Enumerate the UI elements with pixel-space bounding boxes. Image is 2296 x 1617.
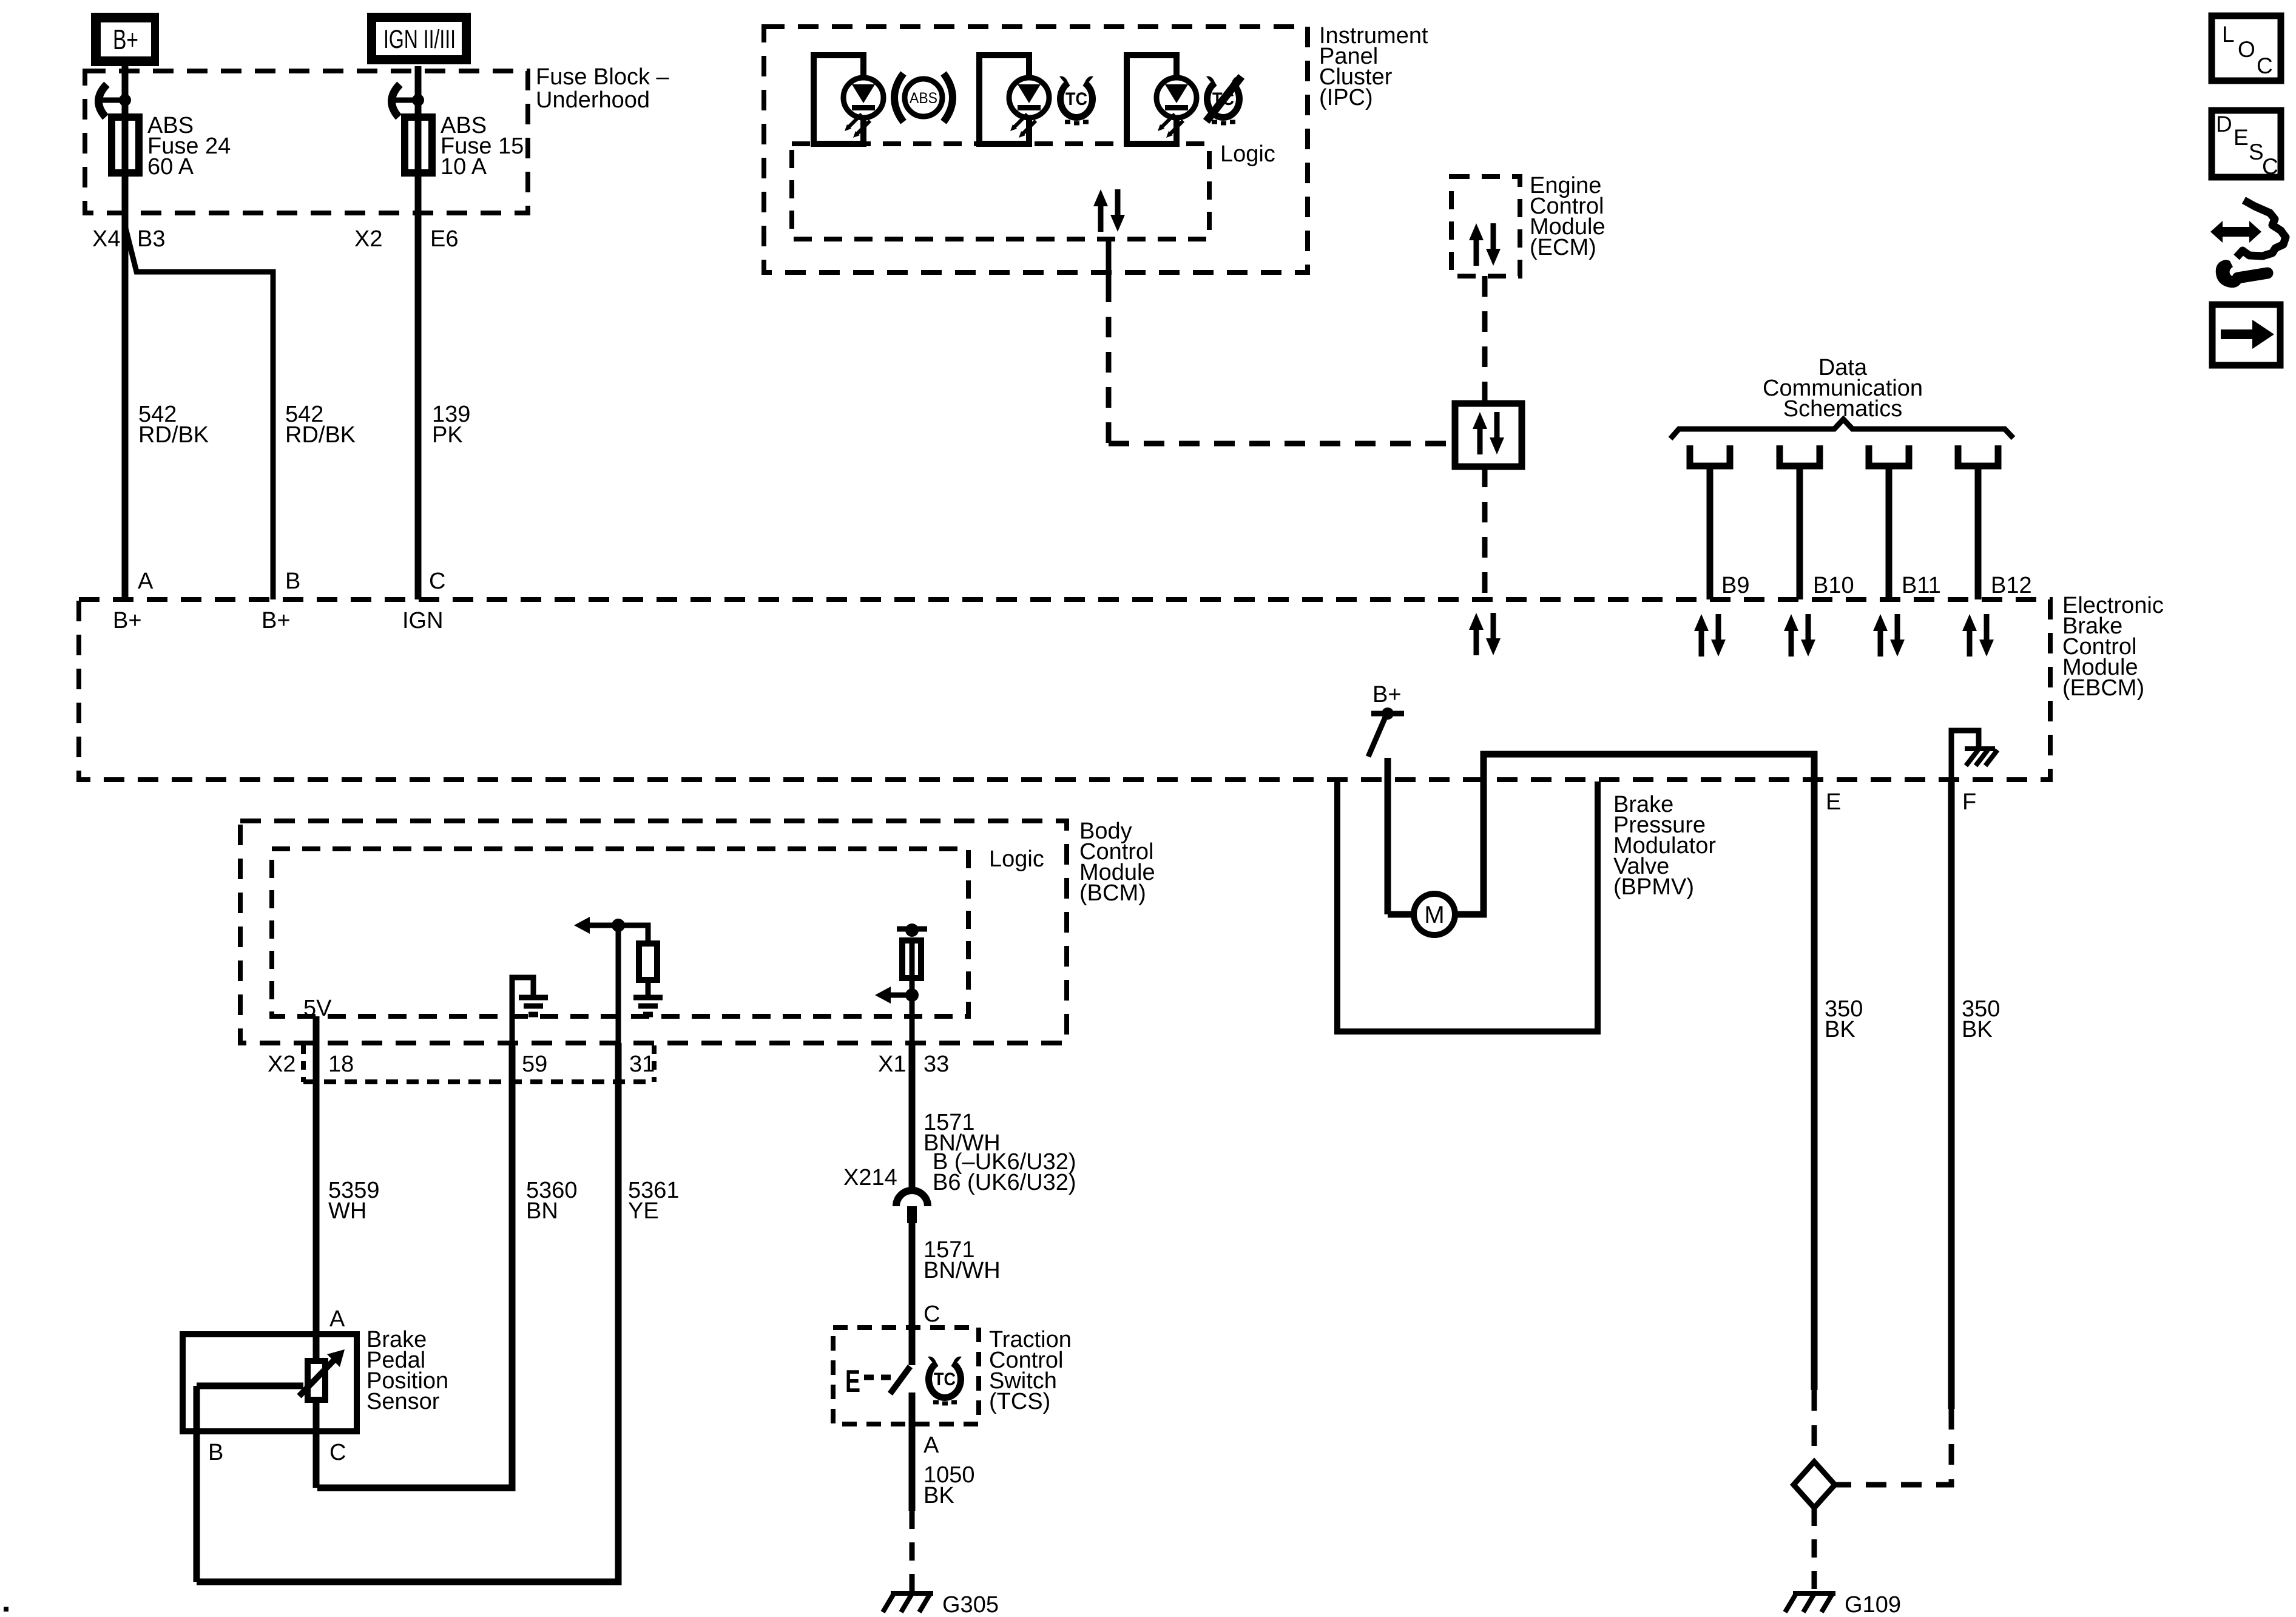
harness repair icon: double arrow, band, wrench [2210,200,2286,288]
wire 1571 BN/WH from BCM pin 33 [909,1043,916,1191]
EBCM internal ground to pin F [1951,731,1997,781]
wire 350 BK from EBCM pin F [1948,781,1955,1409]
svg-text:B+: B+ [113,24,138,55]
connector drop B10 [1780,445,1854,657]
svg-text:IGN II/III: IGN II/III [383,25,456,54]
svg-text:YE: YE [628,1198,659,1224]
svg-text:E: E [845,1364,860,1399]
serial data gateway box [1455,403,1522,467]
svg-text:(BCM): (BCM) [1079,880,1146,906]
svg-text:C: C [429,569,445,594]
svg-text:10 A: 10 A [441,154,487,180]
svg-text:ABS: ABS [910,90,937,107]
TC tire icon [1057,76,1096,123]
serial data arrows inside EBCM below gateway drop [1469,613,1501,655]
TCS switch blade [890,1366,910,1394]
svg-text:B9: B9 [1721,573,1749,598]
potentiometer inside sensor [197,1334,345,1582]
serial data arrows inside IPC logic [1093,189,1125,232]
fuse ABS Fuse 15 10 A [405,117,432,173]
fuse holder clip at fuse 15 [412,94,424,106]
svg-text:Fuse Block –: Fuse Block – [536,64,670,90]
IPC logic dashed box [792,144,1209,239]
ABS indicator LED [814,55,883,144]
svg-text:M: M [1424,902,1444,928]
connector drop B12 [1958,445,2032,657]
data communication brace [1670,419,2013,439]
ground G305 [883,1593,933,1612]
svg-text:B+: B+ [1373,682,1402,707]
power feed IGN II/III box [367,13,471,64]
serial data wire gateway to EBCM [1482,467,1488,599]
svg-text:B+: B+ [262,608,291,633]
svg-text:B+: B+ [113,608,142,633]
svg-text:31: 31 [629,1052,655,1077]
brake pressure modulator valve BPMV box [1337,781,1598,1031]
svg-text:RD/BK: RD/BK [138,422,209,448]
TC off tire icon with slash [1204,76,1243,123]
svg-text:59: 59 [522,1052,547,1077]
BCM internal pull-down resistor at pin 31 [574,917,663,1043]
svg-text:C: C [329,1440,346,1465]
stray page dot [4,1607,8,1612]
fuse block underhood dashed box [85,71,528,213]
serial data wire ECM to gateway box [1482,276,1488,403]
wire 139 PK from fuse 15 to EBCM pin C [415,173,422,599]
svg-text:D: D [2216,112,2232,137]
svg-text:WH: WH [328,1198,366,1224]
svg-text:(EBCM): (EBCM) [2062,675,2144,701]
svg-text:B3: B3 [137,226,165,252]
wire motor left [1388,911,1414,918]
forward navigation arrow box [2212,305,2280,365]
serial data wire to gateway box [1109,441,1455,447]
svg-text:A: A [923,1433,939,1458]
svg-text:C: C [2262,154,2278,179]
wire 1571 BN/WH to TCS pin C [909,1223,916,1365]
svg-text:Underhood: Underhood [536,87,650,113]
svg-text:G109: G109 [1845,1592,1901,1617]
svg-text:E: E [1826,789,1841,815]
svg-text:(ECM): (ECM) [1530,235,1596,260]
svg-text:B10: B10 [1813,573,1854,598]
svg-text:BN/WH: BN/WH [923,1258,1001,1283]
body control module BCM dashed box [240,821,1067,1043]
svg-text:18: 18 [328,1052,354,1077]
svg-text:B: B [285,569,300,594]
svg-text:Logic: Logic [1220,141,1275,167]
TC off indicator LED [1127,55,1197,144]
connector drop B9 [1690,445,1749,657]
DESC navigation box [2212,110,2281,179]
wire branch to B: diagonal and horizontal [125,226,273,599]
svg-text:Logic: Logic [989,846,1044,872]
pump motor M [1414,894,1455,935]
svg-text:BK: BK [923,1483,954,1508]
instrument panel cluster IPC dashed box [764,27,1308,272]
svg-text:X2: X2 [354,226,382,252]
svg-text:B: B [208,1440,223,1465]
svg-text:IGN: IGN [402,608,444,633]
svg-text:L: L [2222,22,2235,47]
wire 542 RD/BK A from fuse 24 to EBCM pin A [122,173,129,599]
svg-text:X214: X214 [843,1165,897,1190]
svg-text:(IPC): (IPC) [1319,85,1373,110]
svg-text:Sensor: Sensor [366,1389,440,1414]
traction control switch TCS dashed box [833,1328,979,1424]
svg-text:PK: PK [432,422,463,448]
wire 1050 BK from TCS pin A to G305 [909,1424,916,1511]
svg-text:F: F [1962,789,1976,815]
wire splice to G109 [1812,1508,1817,1593]
electronic brake control module EBCM dashed box [79,599,2050,780]
svg-text:O: O [2238,37,2255,62]
svg-text:E: E [2234,125,2249,150]
svg-text:BK: BK [1962,1017,1993,1042]
TC indicator LED [979,55,1049,144]
serial data arrows inside gateway box [1473,412,1504,454]
svg-text:B6 (UK6/U32): B6 (UK6/U32) [933,1170,1076,1195]
svg-text:33: 33 [923,1052,949,1077]
BCM internal ground at pin 59 [512,977,548,1043]
wire from IGN II/III to fuse 15 [415,66,422,178]
wire 5361 YE from BCM pin 31 to sensor pin B [197,1043,618,1582]
svg-text:C: C [2257,53,2273,78]
power feed B+ box [91,13,159,66]
fuse ABS Fuse 24 60 A [112,117,139,173]
svg-text:C: C [923,1301,940,1327]
svg-text:60 A: 60 A [147,154,194,180]
svg-text:A: A [138,569,154,594]
engine control module ECM dashed box [1451,177,1520,276]
svg-text:G305: G305 [942,1592,999,1617]
svg-text:(TCS): (TCS) [989,1389,1050,1414]
EBCM internal B+ feed and switch for pump motor [1368,682,1404,914]
svg-text:X2: X2 [268,1052,295,1077]
svg-text:X4: X4 [92,226,120,252]
BCM connector X2 strip [303,1045,654,1082]
svg-text:BK: BK [1825,1017,1855,1042]
brake pedal position sensor box [183,1334,357,1431]
wire 5359 WH from BCM pin 18 to sensor pin A [313,1016,320,1362]
svg-text:A: A [329,1306,345,1332]
svg-text:RD/BK: RD/BK [285,422,356,448]
TC icon inside TCS [925,1357,964,1403]
ABS warning icon [894,73,953,122]
svg-text:(BPMV): (BPMV) [1613,874,1694,900]
svg-text:X1: X1 [878,1052,906,1077]
inline connector X214 [843,1149,1076,1223]
svg-text:BN: BN [526,1198,558,1224]
serial data arrows inside ECM [1469,223,1501,266]
fuse holder clip at fuse 24 [119,94,131,106]
serial data wire from IPC logic [1106,239,1112,282]
svg-text:E6: E6 [430,226,458,252]
svg-text:B12: B12 [1991,573,2032,598]
wire motor right up to pin E [1455,754,1814,914]
connector drop B11 [1869,445,1941,657]
wire 350 BK from EBCM pin E [1811,781,1818,1390]
BCM logic dashed box [272,849,968,1016]
svg-text:S: S [2249,140,2264,164]
ground G109 [1785,1593,1835,1612]
BCM internal pull-up resistor at pin 33 [875,923,927,1043]
LOC navigation box [2212,16,2281,81]
splice diamond [1794,1462,1835,1508]
wire 5360 BN from BCM pin 59 to sensor pin C [317,1043,512,1488]
wire from B+ to fuse 24 [122,66,129,178]
svg-text:B11: B11 [1902,573,1941,598]
